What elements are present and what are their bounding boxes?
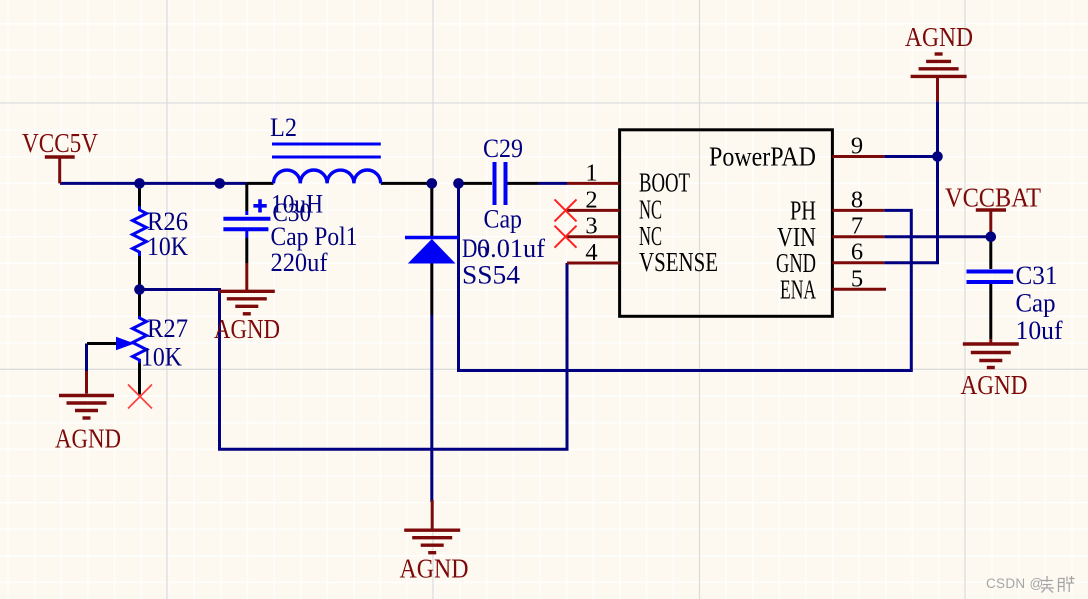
svg-text:10K: 10K	[147, 232, 188, 261]
wire R27 wiper down to AGND	[85, 344, 88, 372]
capacitor C29	[459, 162, 539, 205]
svg-text:PowerPAD: PowerPAD	[709, 141, 816, 172]
wire switch node to PH (down from L2 out, right, up to pin8)	[459, 183, 912, 370]
svg-text:9: 9	[851, 133, 863, 160]
svg-text:VSENSE: VSENSE	[639, 246, 718, 277]
junction dot (switch node)	[453, 178, 464, 189]
inductor L2	[247, 144, 428, 183]
wire pin7 VIN to VCCBAT	[884, 235, 991, 238]
svg-text:1: 1	[585, 159, 597, 186]
svg-text:VCC5V: VCC5V	[22, 128, 98, 158]
no-ERC X at pin 3	[555, 226, 577, 248]
pin 9 PowerPAD stub	[832, 155, 884, 158]
junction dot (C30 wire)	[214, 178, 225, 189]
pin 5 ENA stub	[832, 288, 886, 291]
svg-text:Cap Pol1: Cap Pol1	[271, 222, 358, 251]
svg-text:ENA: ENA	[780, 273, 816, 304]
svg-text:C29: C29	[483, 134, 523, 163]
svg-text:10uH: 10uH	[271, 190, 323, 219]
ground AGND (D6 bottom)	[404, 500, 460, 553]
svg-text:2: 2	[585, 186, 597, 213]
junction dot (D6 top)	[427, 178, 438, 189]
no-ERC X at R27 bottom	[128, 385, 152, 409]
no-ERC X at pin 2	[555, 199, 577, 221]
svg-text:3: 3	[585, 213, 597, 240]
ground AGND (C30)	[219, 263, 275, 314]
svg-text:0.01uf: 0.01uf	[477, 234, 545, 263]
svg-text:Cap: Cap	[1016, 289, 1056, 318]
capacitor C31	[967, 240, 1014, 339]
ground AGND (top right, inverted)	[911, 54, 967, 101]
svg-text:AGND: AGND	[55, 424, 121, 454]
junction dot (VCCBAT)	[986, 232, 997, 243]
resistor R26	[133, 183, 147, 289]
diode D6 SS54	[405, 183, 459, 315]
pin 1 BOOT stub	[567, 182, 620, 185]
pin 7 VIN stub	[832, 235, 884, 238]
wire D6 anode down to AGND	[430, 315, 433, 502]
power port VCC5V	[45, 157, 75, 183]
junction dot (divider node)	[134, 284, 145, 295]
wire divider node to VSENSE (R26/R27 junction right, down, right, up to pin4)	[140, 263, 568, 449]
pin 8 PH stub	[832, 209, 884, 212]
svg-text:L2: L2	[270, 113, 297, 142]
svg-text:AGND: AGND	[214, 314, 280, 344]
svg-text:4: 4	[585, 239, 597, 266]
svg-text:5: 5	[851, 265, 863, 292]
svg-text:AGND: AGND	[400, 554, 469, 584]
capacitor C30 (polarized)	[223, 183, 270, 263]
wire C29 to pin1 BOOT	[538, 182, 567, 185]
svg-text:6: 6	[851, 239, 863, 266]
svg-text:10K: 10K	[141, 343, 182, 372]
ground AGND (C31)	[963, 339, 1019, 368]
power port VCCBAT	[976, 210, 1006, 237]
resistor R27 (rheostat)	[87, 290, 147, 395]
op IC U (regulator) box	[620, 130, 833, 316]
svg-text:C31: C31	[1016, 261, 1058, 290]
junction dot (R26 top)	[134, 178, 145, 189]
svg-text:8: 8	[851, 186, 863, 213]
pin 3 NC stub	[567, 235, 620, 238]
svg-text:SS54: SS54	[462, 261, 520, 290]
wire pin9 PowerPAD to AGND vertical	[884, 155, 937, 158]
ground AGND (R27 wiper)	[59, 371, 114, 418]
svg-text:7: 7	[851, 213, 863, 240]
svg-text:220uf: 220uf	[271, 248, 328, 277]
svg-text:AGND: AGND	[905, 22, 973, 52]
pin 4 VSENSE stub	[567, 262, 620, 265]
svg-text:10uf: 10uf	[1016, 316, 1063, 345]
watermark CSDN	[986, 576, 1075, 593]
junction dot (pin9/AGND)	[932, 151, 943, 162]
wire AGND top vertical down to GND pin6	[884, 101, 937, 262]
svg-text:VCCBAT: VCCBAT	[945, 183, 1041, 213]
svg-text:CSDN @: CSDN @	[986, 576, 1044, 591]
svg-text:Cap: Cap	[484, 205, 523, 234]
svg-text:AGND: AGND	[961, 370, 1028, 400]
pin 2 NC stub	[567, 209, 620, 212]
svg-text:R27: R27	[147, 314, 188, 343]
wire VCC5V rail y=183	[60, 182, 247, 185]
pin 6 GND stub	[832, 261, 884, 264]
